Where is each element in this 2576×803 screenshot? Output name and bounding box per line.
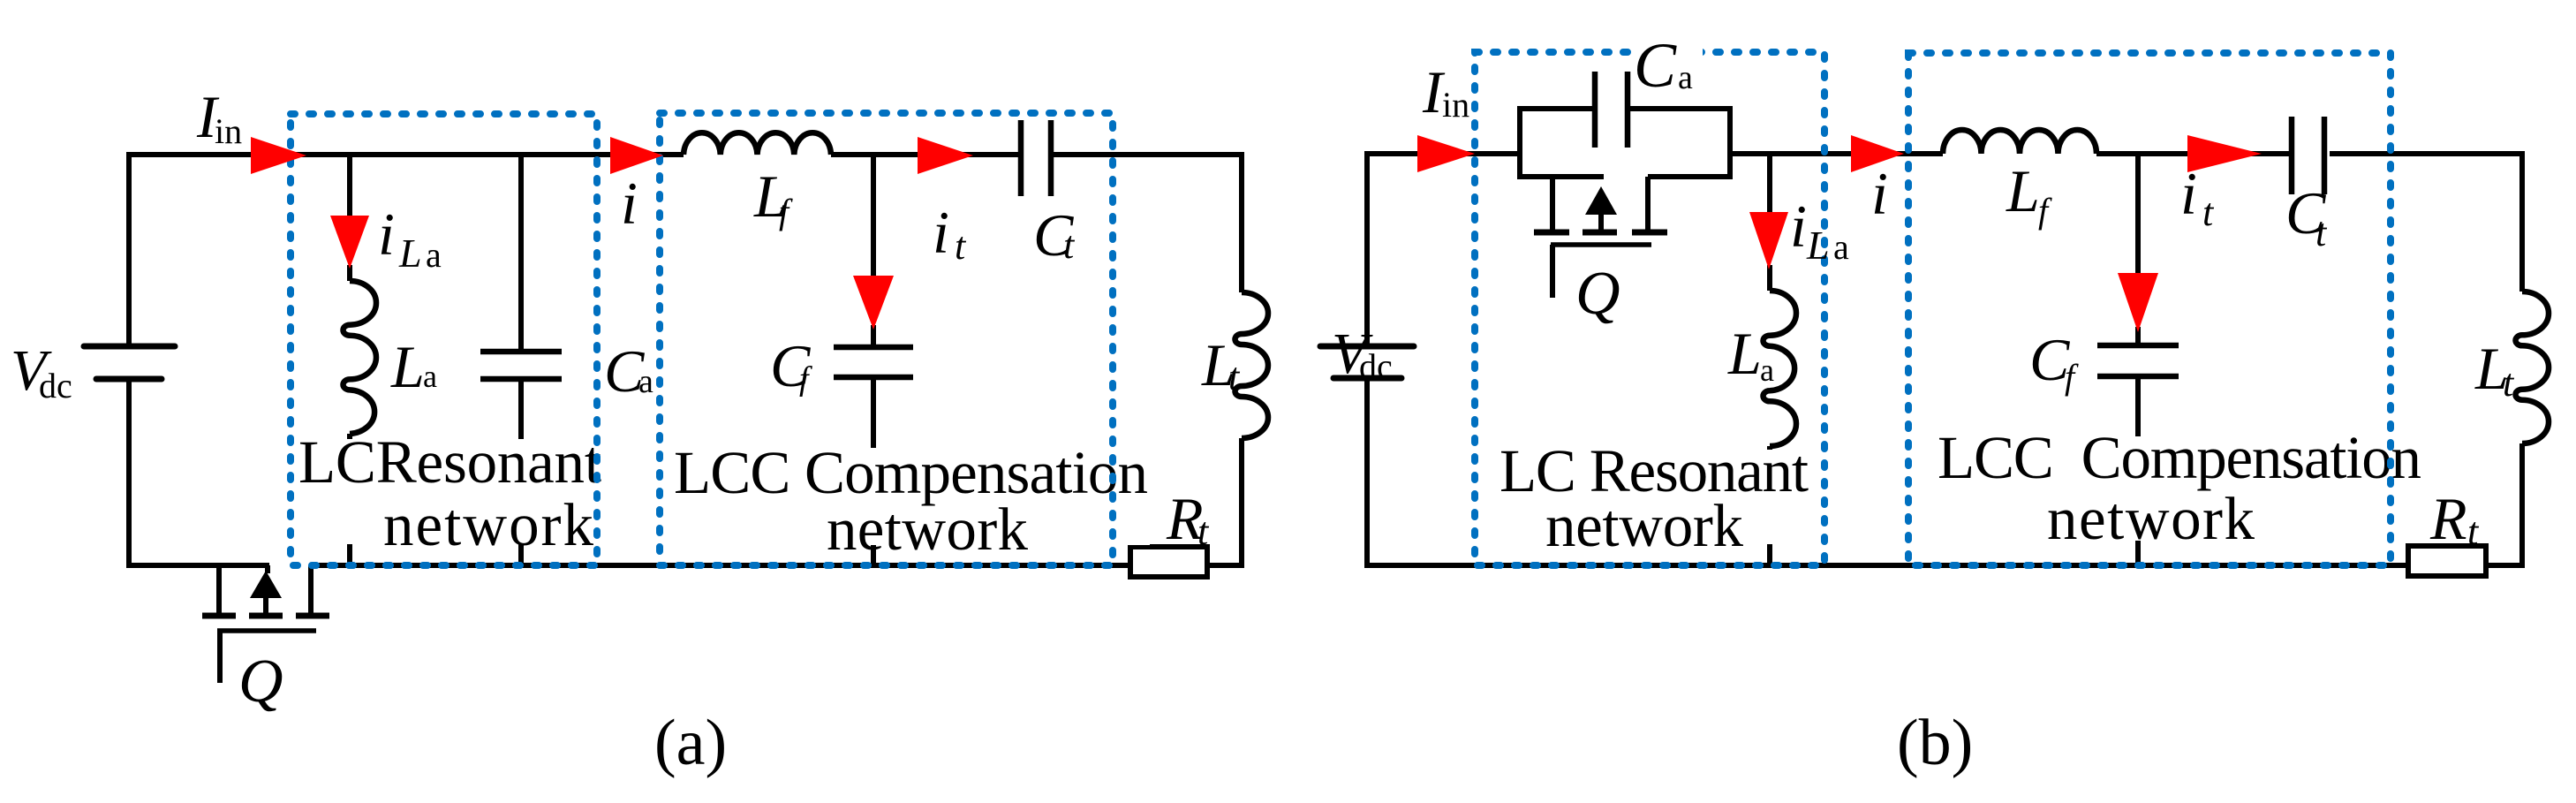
svg-text:i: i <box>2180 160 2197 227</box>
current arrow it (b) <box>2187 135 2262 172</box>
current arrow i (a) <box>610 137 663 174</box>
svg-text:t: t <box>955 224 967 268</box>
svg-text:a: a <box>426 235 442 275</box>
svg-text:f: f <box>799 360 812 398</box>
inductor Lf (b) <box>1943 130 2096 154</box>
current arrow Iin (b) <box>1417 135 1475 172</box>
current arrow it (a) <box>918 137 973 174</box>
dashed box LC Resonant network (a) <box>291 114 597 565</box>
svg-text:a: a <box>423 359 437 394</box>
current arrow iLa (a) <box>330 216 369 269</box>
svg-text:network: network <box>1545 492 1744 559</box>
capacitor Cf branch (a) <box>834 155 913 565</box>
capacitor Ct (a) <box>1021 120 1051 196</box>
battery Vdc (b) <box>1320 346 1414 378</box>
dashed box LCC Compensation network (a) <box>660 113 1113 565</box>
resistor Rt (b) <box>2408 546 2486 576</box>
current arrow iCf (a) <box>853 276 894 330</box>
svg-text:f: f <box>2038 191 2052 231</box>
svg-text:(b): (b) <box>1897 707 1973 779</box>
wire left vertical (b) <box>1364 156 1370 568</box>
dashed box LC Resonant network (b) <box>1475 52 1824 565</box>
resistor Rt (a) <box>1130 547 1207 577</box>
svg-text:LCResonant: LCResonant <box>298 428 601 496</box>
svg-text:i: i <box>1871 160 1888 227</box>
transistor Q (a) MOSFET <box>202 565 329 683</box>
svg-text:dc: dc <box>39 366 72 405</box>
svg-text:Q: Q <box>238 648 283 716</box>
svg-text:network: network <box>2047 485 2255 552</box>
inductor La (b) <box>1764 291 1796 446</box>
transistor Q (b) body arrow <box>1585 186 1617 215</box>
svg-text:in: in <box>1442 85 1469 125</box>
current arrow iCf (b) <box>2118 273 2158 332</box>
transistor Q (b) MOSFET <box>1534 177 1667 298</box>
capacitor Cf branch (b) <box>2097 154 2179 565</box>
svg-text:i: i <box>621 170 638 237</box>
inductor Lt (b) <box>2516 292 2550 443</box>
svg-text:i: i <box>1790 193 1807 260</box>
svg-text:i: i <box>933 199 949 266</box>
svg-text:L: L <box>1727 320 1762 387</box>
current arrow Iin (a) <box>251 137 306 174</box>
capacitor Ct (b) <box>2292 117 2324 194</box>
svg-text:network: network <box>383 491 594 558</box>
svg-text:a: a <box>638 363 653 400</box>
svg-text:LCC Compensation: LCC Compensation <box>1938 424 2421 491</box>
caption LCC Compensation network (a) <box>672 439 1150 563</box>
wire left vertical (a) <box>126 157 132 568</box>
wire La lower lead (b) <box>1767 446 1772 565</box>
svg-text:a: a <box>1760 352 1774 388</box>
wire top (b) <box>1364 151 2522 156</box>
inductor Lt (a) <box>1235 292 1269 438</box>
wire top (a) <box>126 152 1242 157</box>
svg-text:t: t <box>2202 191 2215 234</box>
transistor Q (a) body arrow <box>250 571 282 598</box>
svg-text:a: a <box>1833 227 1849 267</box>
wire bottom (b) <box>1364 563 2525 568</box>
inductor La (a) <box>344 281 376 434</box>
label Ca (b) <box>1634 30 1703 101</box>
svg-text:f: f <box>779 192 793 231</box>
wire bottom (a) <box>126 563 1244 568</box>
svg-text:t: t <box>2503 361 2515 405</box>
svg-text:t: t <box>2467 510 2480 553</box>
svg-text:L: L <box>1806 223 1830 268</box>
svg-text:t: t <box>2315 211 2328 254</box>
svg-text:f: f <box>2065 357 2079 397</box>
svg-text:a: a <box>1678 59 1693 96</box>
transistor Q (b) MOSFET block outline <box>1517 109 1733 177</box>
capacitor Ca (a) <box>480 155 562 565</box>
wire right vertical (a) <box>1239 152 1244 568</box>
svg-text:t: t <box>1228 355 1241 398</box>
caption LC Resonant network (b) <box>1498 437 1810 559</box>
svg-text:C: C <box>1634 30 1677 101</box>
wire right vertical (b) <box>2519 151 2525 568</box>
wire La lower lead (a) <box>347 434 352 565</box>
svg-text:L: L <box>2006 157 2040 224</box>
capacitor Ca (b) <box>1595 72 1628 148</box>
current arrow i (b) <box>1851 135 1904 172</box>
svg-text:(a): (a) <box>654 707 727 779</box>
svg-text:L: L <box>390 333 425 400</box>
svg-text:network: network <box>827 496 1029 563</box>
svg-text:t: t <box>1197 510 1210 553</box>
svg-text:i: i <box>378 201 395 268</box>
inductor Lf (a) <box>684 133 831 155</box>
node branch wire iLa/La (b) <box>1767 154 1772 291</box>
battery Vdc (a) <box>84 346 175 379</box>
caption LC Resonant network (a) <box>297 428 604 558</box>
current arrow iLa (b) <box>1749 212 1788 269</box>
node branch wire iLa/La (a) <box>347 155 352 281</box>
svg-text:in: in <box>215 111 242 151</box>
svg-text:L: L <box>398 231 422 276</box>
caption LCC Compensation network (b) <box>1936 424 2423 552</box>
svg-text:t: t <box>1063 223 1076 267</box>
svg-text:R: R <box>2429 485 2467 552</box>
svg-text:dc: dc <box>1359 346 1393 386</box>
dashed box LCC Compensation network (b) <box>1908 53 2391 565</box>
svg-text:Q: Q <box>1575 260 1620 328</box>
